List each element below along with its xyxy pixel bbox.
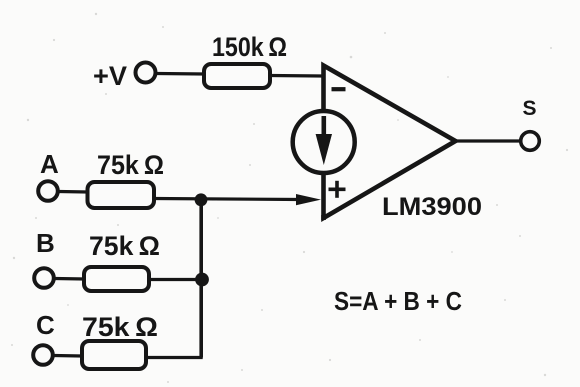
plus input label [329, 181, 346, 198]
resistor R4 [82, 341, 146, 369]
wire R3 to bus [149, 278, 202, 281]
svg-text:150k Ω: 150k Ω [212, 32, 287, 62]
resistor R1 [204, 64, 270, 88]
terminal C [33, 345, 53, 365]
terminal S [521, 132, 540, 151]
terminal B [34, 268, 54, 288]
svg-text:S=A + B + C: S=A + B + C [334, 286, 462, 316]
wire C terminal to R4 [54, 354, 82, 358]
svg-text:B: B [36, 228, 55, 258]
svg-text:75k Ω: 75k Ω [89, 231, 160, 261]
terminal A [38, 181, 58, 201]
bus wire vertical A-B-C [199, 199, 203, 358]
terminal +V [136, 63, 156, 83]
svg-text:75k Ω: 75k Ω [97, 150, 164, 180]
triangle bottom vertex stub [321, 215, 326, 220]
wire R1 to op-amp inverting input [270, 74, 323, 78]
output wire [455, 139, 520, 142]
wire R4 to bus corner [146, 356, 203, 359]
wire B terminal to R3 [55, 277, 85, 281]
junction node A [195, 193, 208, 206]
resistor R2 [88, 182, 155, 208]
svg-text:A: A [40, 149, 59, 179]
svg-text:LM3900: LM3900 [382, 193, 482, 221]
wire A terminal to R2 [59, 190, 88, 194]
svg-text:C: C [36, 310, 55, 340]
arrowhead into plus input [296, 194, 321, 205]
current source arrow [316, 116, 332, 165]
wire +V terminal to R1 [157, 72, 205, 76]
minus input label [332, 87, 346, 91]
wire R2 to noninverting input with junction [154, 199, 300, 200]
svg-text:S: S [523, 97, 537, 120]
current source circle [293, 111, 355, 173]
op-amp U1 triangle [324, 66, 456, 219]
junction node B [195, 273, 209, 287]
resistor R3 [84, 267, 149, 291]
svg-text:+V: +V [93, 61, 127, 91]
svg-text:75k Ω: 75k Ω [82, 312, 158, 342]
